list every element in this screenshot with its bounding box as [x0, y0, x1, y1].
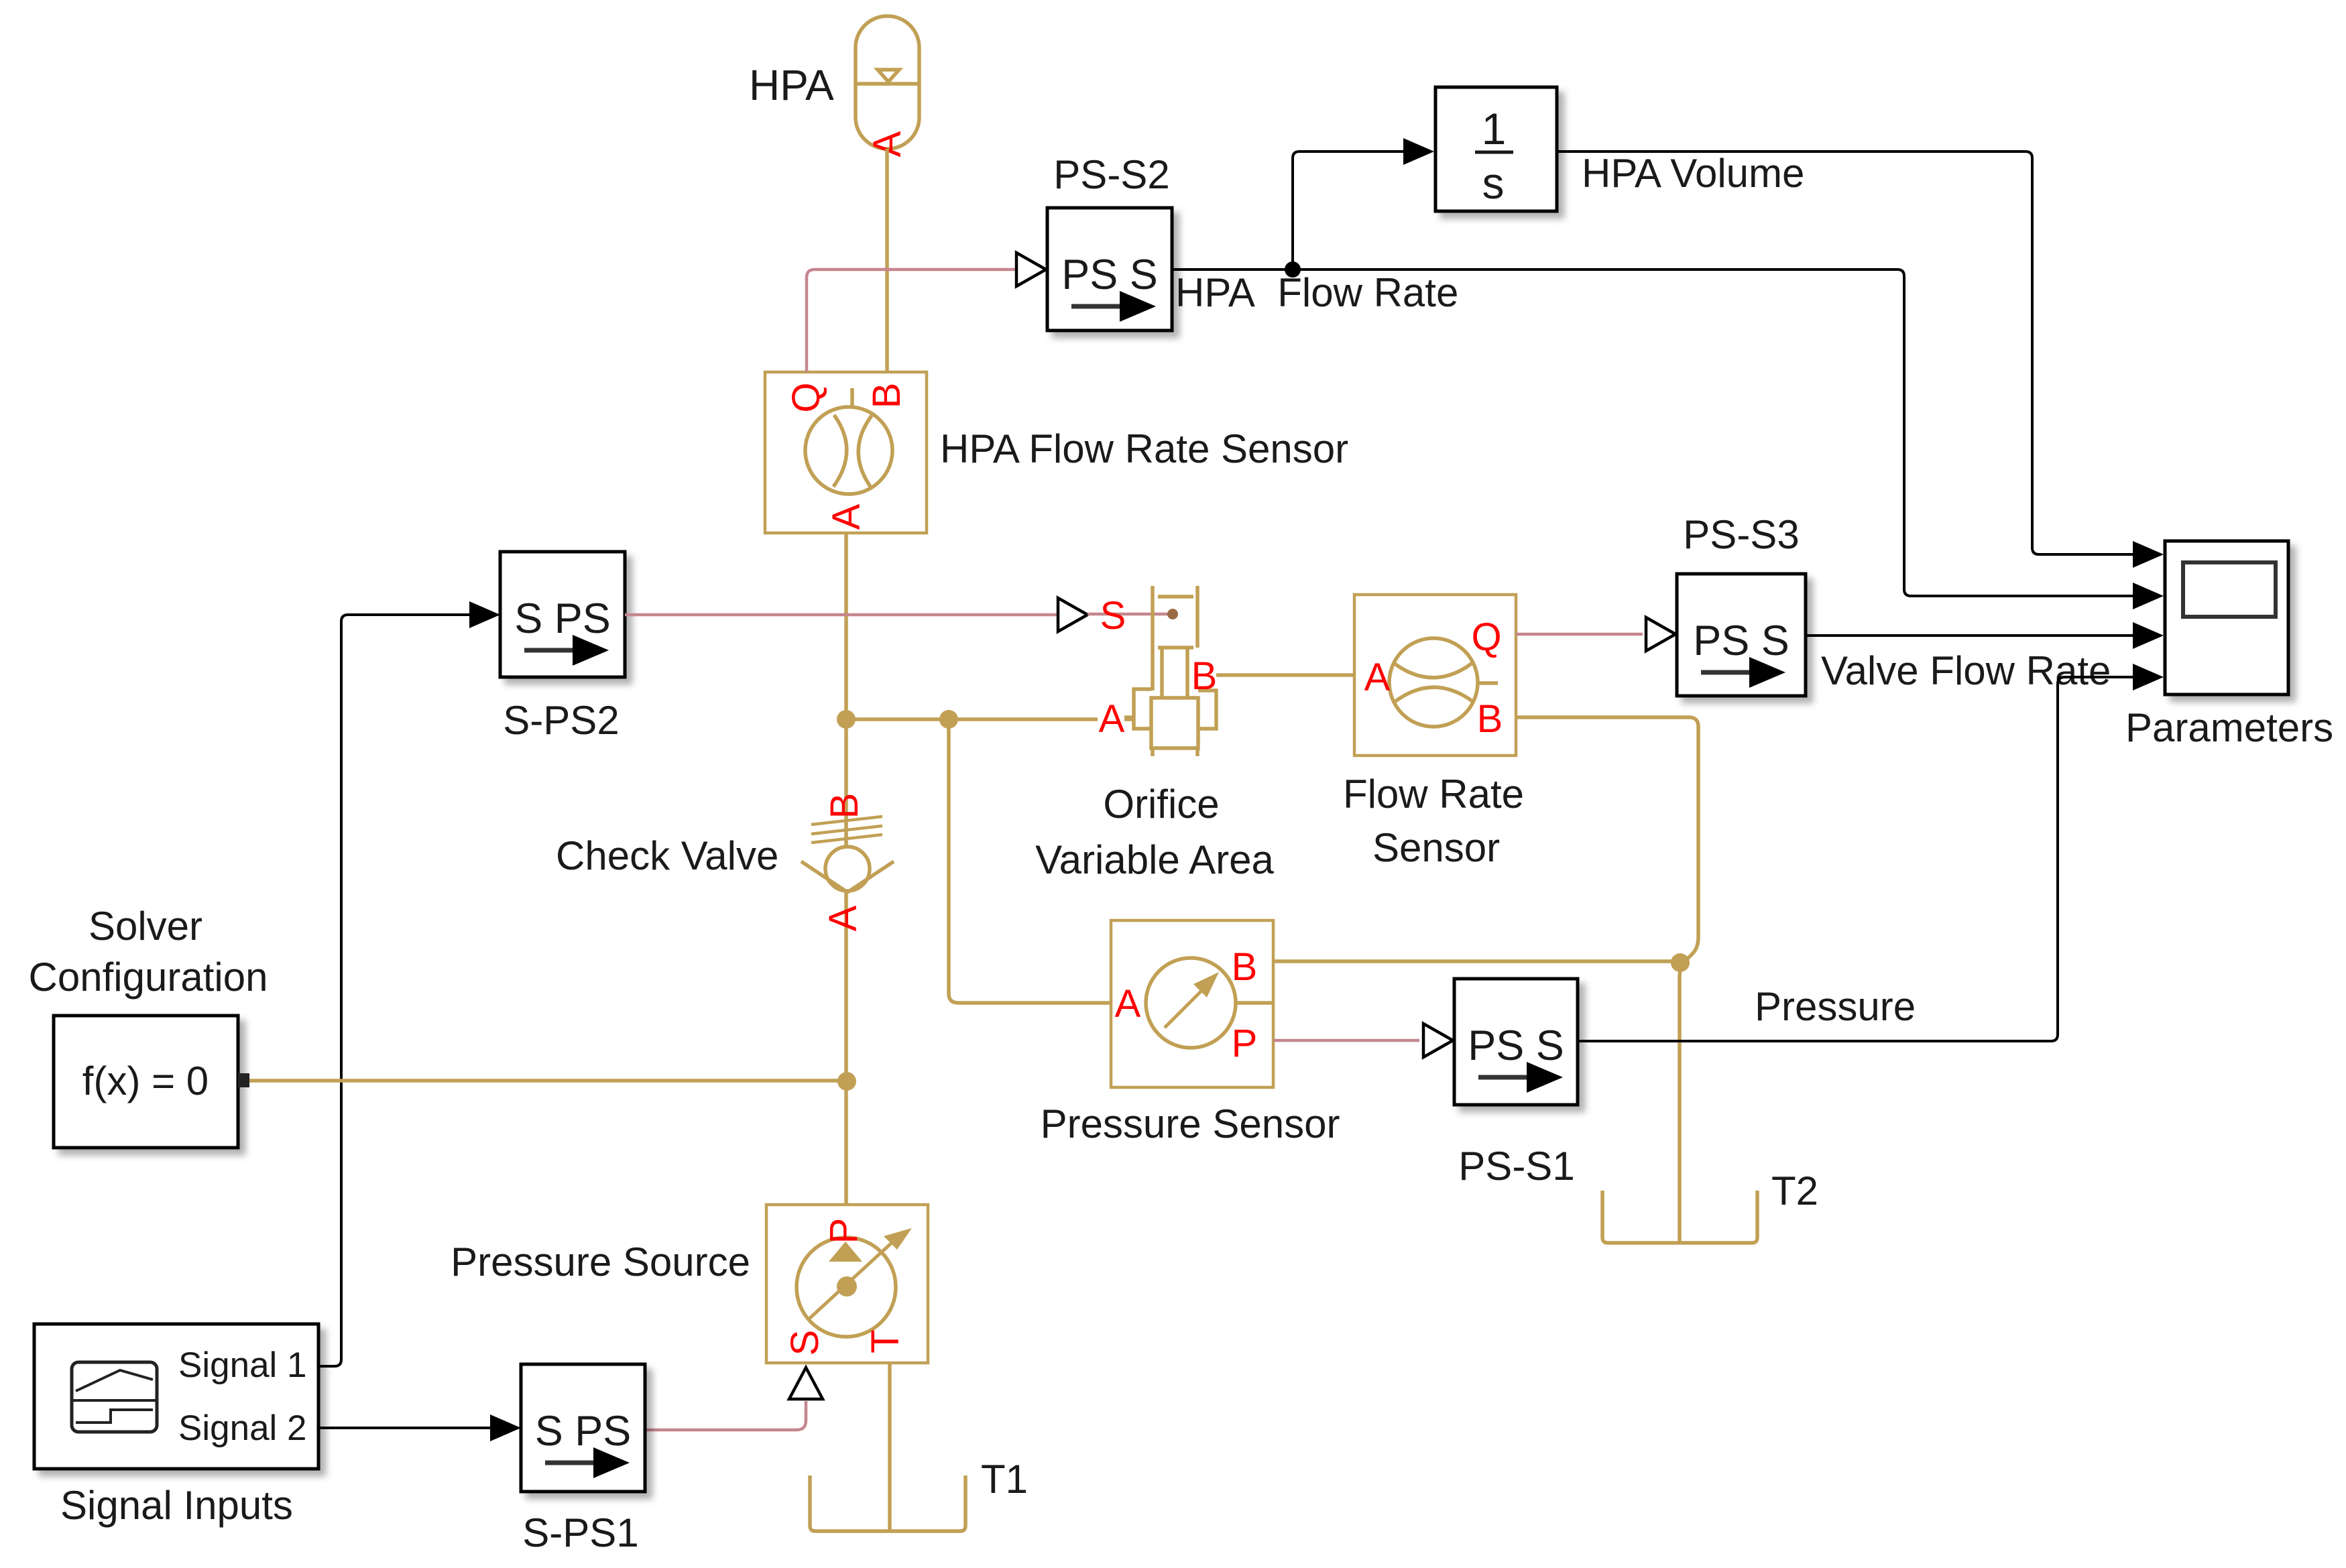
svg-text:Pressure Sensor: Pressure Sensor — [1041, 1101, 1340, 1146]
block HPA Flow Rate Sensor — [765, 372, 927, 533]
wire junction to Integrator input — [1293, 152, 1403, 269]
converter block S-PS1 — [521, 1364, 645, 1492]
svg-text:S: S — [1100, 594, 1126, 638]
wire manifold to Pressure Sensor A — [949, 719, 1111, 1003]
converter block PS-S3 — [1677, 574, 1806, 696]
svg-text:Flow Rate: Flow Rate — [1343, 772, 1524, 817]
svg-text:B: B — [1477, 697, 1503, 741]
wire Flow Rate Sensor B to reservoir T2 — [1516, 717, 1698, 1243]
svg-text:A: A — [1099, 697, 1125, 741]
converter block PS-S2 — [1047, 208, 1172, 330]
svg-text:PS-S3: PS-S3 — [1683, 512, 1799, 557]
svg-text:Signal 1: Signal 1 — [178, 1345, 307, 1385]
svg-text:Signal 2: Signal 2 — [178, 1408, 307, 1448]
svg-text:1: 1 — [1482, 104, 1507, 154]
svg-text:P: P — [1232, 1022, 1258, 1065]
wire Integrator to Parameters input 1 (HPA Volume signal) — [1557, 152, 2133, 554]
wire PS-S1 to Parameters input 4 (Pressure signal) — [1578, 677, 2133, 1041]
svg-text:A: A — [1115, 982, 1141, 1026]
input arrow PS-S1 — [1423, 1024, 1453, 1057]
wire Flow Rate Sensor Q to PS-S3 (physical signal) — [1516, 633, 1643, 636]
converter block S-PS2 — [500, 552, 625, 677]
block Solver Configuration — [54, 1016, 249, 1148]
reservoir T2 — [1602, 1191, 1757, 1243]
svg-text:B: B — [865, 383, 908, 409]
svg-text:Q: Q — [784, 382, 828, 412]
block Signal Inputs — [34, 1324, 318, 1469]
orifice variable area — [1124, 586, 1216, 756]
svg-text:T2: T2 — [1771, 1168, 1818, 1213]
svg-text:A: A — [821, 905, 865, 931]
wire manifold junction to Orifice A — [846, 717, 1134, 721]
junction node (manifold / pressure sensor branch) — [939, 710, 958, 729]
svg-text:PS S: PS S — [1693, 617, 1790, 664]
arrowhead Parameters input 2 — [2133, 583, 2164, 609]
arrowhead S-PS1 input — [490, 1414, 521, 1441]
svg-text:Sensor: Sensor — [1372, 825, 1500, 870]
junction node (solver / main line) — [837, 1072, 856, 1091]
svg-text:A: A — [1364, 656, 1391, 699]
wire S-PS1 to Pressure Source S (physical signal) — [645, 1401, 806, 1430]
input arrow Orifice S — [1058, 598, 1088, 631]
wire Orifice B to Flow Rate Sensor A — [1216, 673, 1354, 677]
wire Pressure Source T to reservoir T1 — [888, 1363, 892, 1531]
node Orifice S port — [1167, 609, 1178, 619]
wire S-PS2 to Orifice S (physical signal) — [625, 613, 1057, 617]
svg-text:B: B — [1232, 945, 1258, 989]
svg-text:S: S — [783, 1330, 827, 1356]
svg-text:f(x) = 0: f(x) = 0 — [82, 1059, 209, 1103]
svg-text:Parameters: Parameters — [2125, 705, 2333, 750]
wire Pressure Sensor B to T2 junction — [1273, 959, 1680, 963]
svg-text:PS S: PS S — [1061, 251, 1158, 298]
input arrow PS-S2 — [1016, 253, 1046, 286]
arrowhead S-PS2 input — [469, 601, 500, 628]
wire Pressure Sensor P to PS-S1 (physical signal) — [1273, 1039, 1419, 1042]
svg-text:B: B — [1191, 654, 1218, 698]
svg-text:Variable Area: Variable Area — [1035, 837, 1274, 882]
wire PS-S2 to Parameters input 2 (HPA Flow Rate signal) — [1172, 269, 2133, 596]
wire accumulator A to HPA Flow Rate Sensor B — [885, 149, 889, 372]
svg-text:PS-S1: PS-S1 — [1458, 1144, 1574, 1189]
svg-text:PS S: PS S — [1468, 1022, 1564, 1069]
svg-text:HPA: HPA — [749, 61, 834, 109]
block Pressure Source — [766, 1205, 928, 1363]
svg-text:HPA Volume: HPA Volume — [1582, 151, 1804, 196]
svg-text:S-PS1: S-PS1 — [522, 1510, 638, 1555]
input arrow Pressure Source S — [789, 1368, 823, 1399]
wire Solver Configuration to main line — [249, 1079, 846, 1083]
arrowhead Parameters input 3 — [2133, 622, 2164, 649]
svg-text:Valve Flow Rate: Valve Flow Rate — [1821, 648, 2111, 693]
arrowhead Parameters input 1 — [2133, 541, 2164, 568]
wire HPA Flow Rate Sensor A down to Pressure Source P (through Check Valve) — [844, 533, 848, 1215]
svg-text:B: B — [823, 793, 866, 819]
block Integrator 1/s — [1435, 87, 1557, 211]
junction node (sensor B lines / T2) — [1671, 953, 1690, 972]
svg-text:PS-S2: PS-S2 — [1053, 152, 1169, 197]
svg-text:S PS: S PS — [514, 595, 611, 642]
svg-text:Signal Inputs: Signal Inputs — [60, 1483, 293, 1528]
accumulator HPA — [856, 16, 919, 149]
block Flow Rate Sensor — [1354, 595, 1516, 756]
wire HPA Flow Rate Sensor Q to PS-S2 (physical signal) — [807, 269, 1016, 372]
svg-text:HPA Flow Rate Sensor: HPA Flow Rate Sensor — [940, 426, 1348, 471]
arrowhead Integrator input — [1403, 138, 1434, 165]
junction node (main line / manifold) — [837, 710, 856, 729]
svg-text:Check Valve: Check Valve — [556, 833, 778, 878]
svg-text:P: P — [822, 1218, 866, 1244]
svg-text:s: s — [1482, 158, 1505, 208]
wire Signal Inputs 1 to S-PS2 — [318, 615, 469, 1366]
svg-text:Q: Q — [1471, 615, 1501, 659]
block Pressure Sensor — [1111, 920, 1273, 1087]
svg-text:T1: T1 — [981, 1457, 1028, 1502]
arrowhead Parameters input 4 — [2133, 664, 2164, 690]
svg-text:Orifice: Orifice — [1103, 782, 1219, 827]
svg-text:Solver: Solver — [89, 904, 202, 949]
block Parameters scope — [2165, 541, 2288, 695]
svg-text:Pressure: Pressure — [1755, 984, 1916, 1029]
junction node HPA Flow Rate — [1285, 261, 1301, 278]
svg-text:S-PS2: S-PS2 — [503, 698, 619, 743]
wire Signal Inputs 2 to S-PS1 — [318, 1427, 490, 1429]
svg-text:HPA Flow Rate: HPA Flow Rate — [1175, 270, 1458, 315]
check valve — [801, 817, 894, 892]
svg-text:T: T — [864, 1329, 907, 1353]
svg-text:Configuration: Configuration — [29, 955, 268, 1000]
input arrow PS-S3 — [1646, 617, 1676, 651]
converter block PS-S1 — [1454, 979, 1578, 1105]
reservoir T1 — [810, 1475, 965, 1531]
svg-text:Pressure Source: Pressure Source — [451, 1240, 750, 1284]
svg-text:A: A — [825, 503, 868, 530]
wire PS-S3 to Parameters input 3 (Valve Flow Rate signal) — [1806, 634, 2133, 637]
wire into Orifice S port — [1088, 613, 1170, 616]
svg-text:S PS: S PS — [535, 1408, 632, 1455]
